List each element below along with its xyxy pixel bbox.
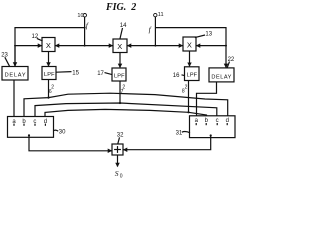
multiplier X 14 bbox=[113, 39, 127, 53]
svg-text:S: S bbox=[115, 169, 119, 178]
svg-text:X: X bbox=[46, 41, 51, 50]
multiplier X 12 bbox=[42, 38, 55, 52]
bus LPF15 to b left and d right bbox=[24, 93, 228, 116]
svg-text:31: 31 bbox=[176, 130, 183, 136]
junction at input10 and rail bbox=[84, 27, 86, 29]
svg-text:DELAY: DELAY bbox=[211, 74, 231, 80]
svg-text:11: 11 bbox=[158, 12, 164, 18]
wire LPF16 output bbox=[188, 81, 190, 113]
svg-text:13: 13 bbox=[205, 31, 212, 37]
multiplier X 13 bbox=[183, 37, 196, 51]
svg-text:6: 6 bbox=[49, 89, 52, 95]
wire rail to X13 right input bbox=[197, 45, 227, 47]
low-pass filter 17 bbox=[112, 68, 126, 81]
svg-text:17: 17 bbox=[97, 71, 104, 77]
wire input11 to X13 left input bbox=[155, 45, 182, 47]
wire input10 to X12 right input bbox=[56, 45, 85, 47]
wire LPF17 output bbox=[119, 81, 121, 103]
svg-text:LPF: LPF bbox=[114, 73, 125, 79]
wire DELAY23 output to switch30 terminal a bbox=[13, 80, 15, 117]
svg-text:30: 30 bbox=[59, 129, 66, 135]
svg-text:2: 2 bbox=[185, 84, 188, 90]
svg-text:32: 32 bbox=[117, 133, 124, 139]
wire input 10 vertical bbox=[84, 17, 86, 46]
switch box 30 bbox=[8, 117, 54, 138]
low-pass filter 15 bbox=[42, 67, 56, 80]
input terminal 11 bbox=[154, 13, 157, 16]
wire input 11 vertical bbox=[154, 17, 156, 46]
svg-text:f: f bbox=[86, 21, 89, 30]
svg-text:15: 15 bbox=[72, 70, 79, 76]
wire LPF15 output bbox=[48, 80, 50, 98]
svg-text:2: 2 bbox=[51, 84, 54, 90]
wire right top rail bbox=[155, 28, 226, 68]
low-pass filter 16 bbox=[185, 67, 200, 81]
adder 32 bbox=[112, 144, 123, 155]
wire switch30 output to adder bbox=[29, 135, 112, 150]
junction right rail / X13 input bbox=[225, 45, 227, 47]
svg-text:DELAY: DELAY bbox=[5, 73, 26, 79]
delay 22 bbox=[209, 68, 234, 82]
svg-text:LPF: LPF bbox=[187, 73, 198, 79]
wire switch31 output to adder bbox=[124, 136, 211, 150]
wire input11 to X14 right input bbox=[128, 45, 156, 47]
svg-text:X: X bbox=[187, 40, 192, 49]
wire DELAY22 output to switch31 terminal a bbox=[197, 82, 217, 116]
svg-text:10: 10 bbox=[77, 13, 83, 19]
svg-text:8: 8 bbox=[182, 89, 185, 95]
svg-text:14: 14 bbox=[120, 23, 127, 29]
wire left top rail bbox=[15, 28, 85, 66]
wire X14 to LPF17 bbox=[119, 53, 121, 68]
bus LPF17 to c left and c right bbox=[35, 103, 217, 117]
svg-text:FIG. 2: FIG. 2 bbox=[105, 2, 136, 13]
wire rail to X12 left input bbox=[15, 45, 42, 47]
wire X12 to LPF15 bbox=[48, 52, 50, 67]
svg-text:X: X bbox=[117, 42, 122, 51]
input terminal 10 bbox=[83, 14, 86, 17]
delay 23 bbox=[2, 67, 28, 81]
svg-text:16: 16 bbox=[173, 73, 180, 79]
svg-text:LPF: LPF bbox=[44, 72, 55, 78]
wire input10 to X14 left input bbox=[85, 45, 113, 47]
svg-text:f: f bbox=[149, 25, 152, 34]
switch box 31 bbox=[190, 116, 236, 138]
wire X13 to LPF16 bbox=[189, 51, 191, 66]
bus LPF16 to d left and b right bbox=[45, 109, 207, 116]
svg-text:0: 0 bbox=[120, 173, 123, 179]
wire adder output S0 bbox=[117, 155, 119, 167]
wire rail down into DELAY 23 bbox=[14, 46, 16, 66]
